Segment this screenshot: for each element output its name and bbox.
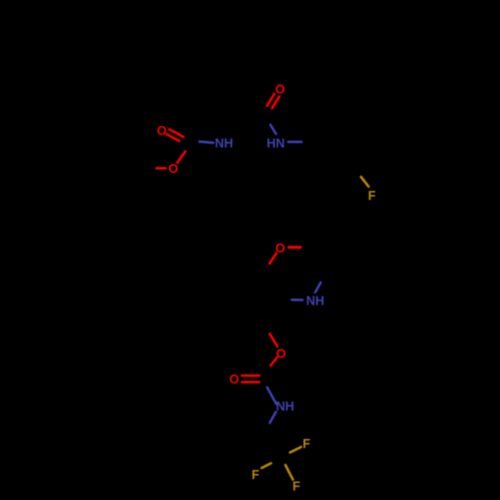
svg-text:O: O [168,162,178,176]
svg-text:O: O [276,347,286,361]
svg-text:F: F [368,189,376,203]
svg-text:NH: NH [306,294,324,308]
svg-text:O: O [275,241,285,255]
svg-text:F: F [292,479,300,493]
svg-text:NH: NH [215,136,233,150]
svg-text:O: O [157,124,167,138]
svg-text:NH: NH [276,400,294,414]
svg-text:F: F [252,468,260,482]
svg-text:F: F [303,437,311,451]
svg-text:HN: HN [267,136,285,150]
svg-text:O: O [275,83,285,97]
svg-text:O: O [229,373,239,387]
